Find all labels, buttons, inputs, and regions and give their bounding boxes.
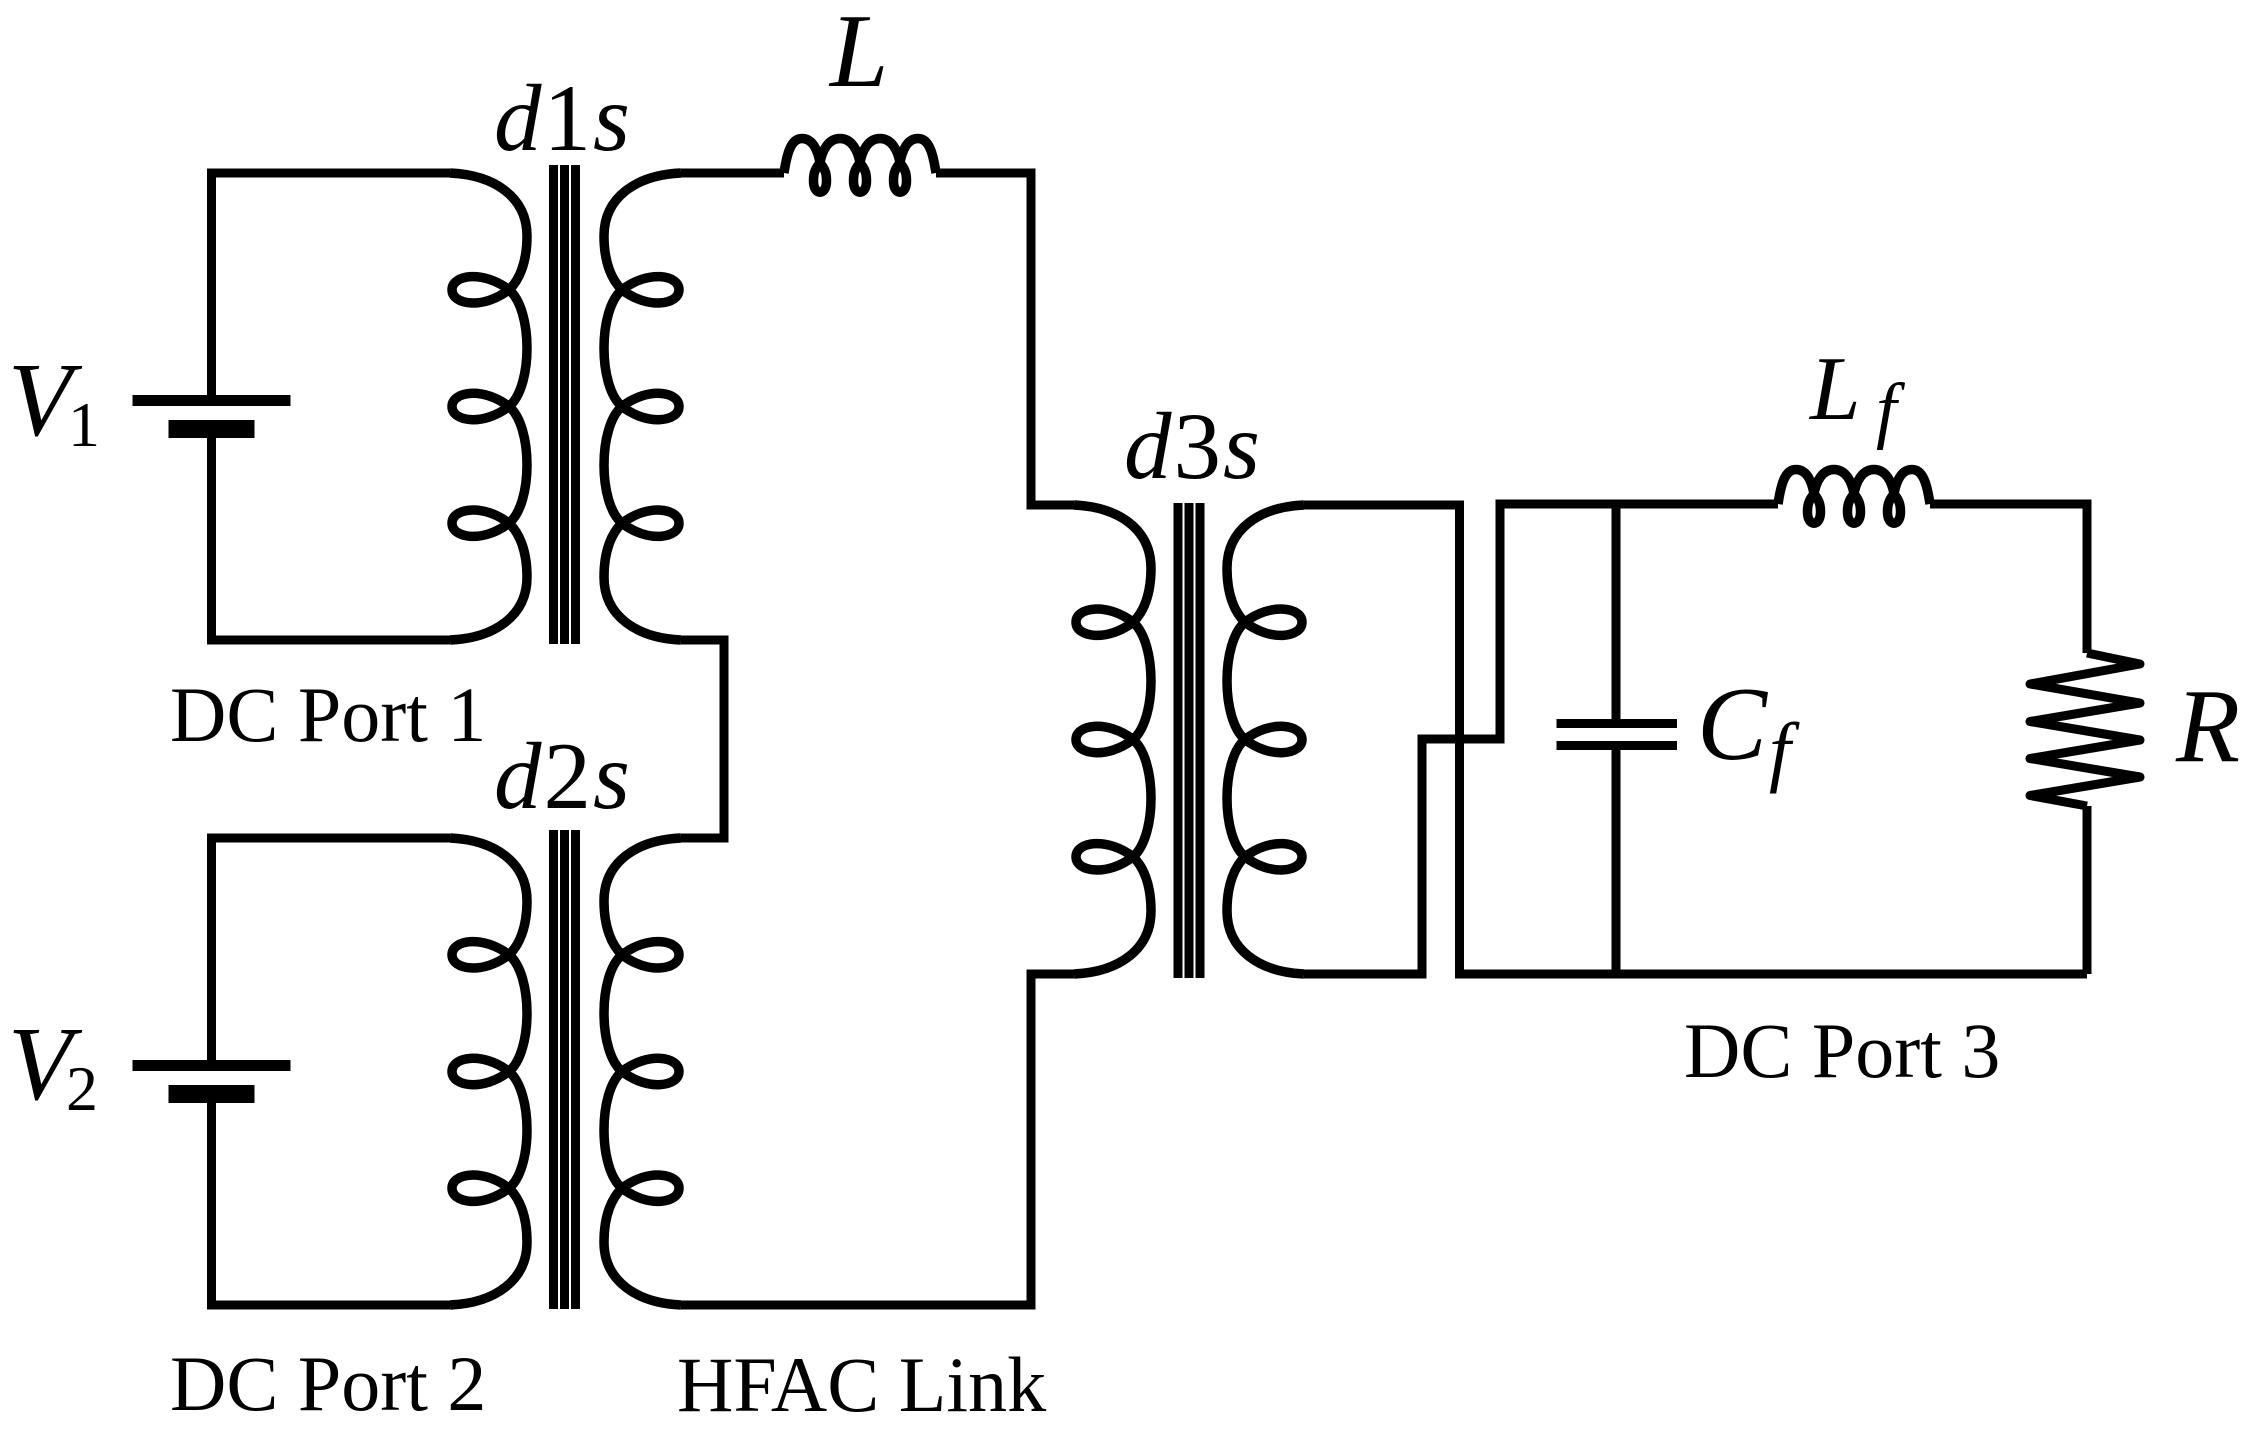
inductor L	[784, 139, 936, 193]
svg-text:R: R	[2175, 667, 2240, 784]
wire: L to d3s primary top	[936, 173, 1074, 505]
transformer d1s secondary winding	[604, 173, 681, 640]
svg-text:2: 2	[66, 1053, 98, 1124]
battery V1	[133, 395, 291, 438]
svg-text:d1s: d1s	[494, 65, 632, 171]
wire: HFAC link bottom (d2s secondary to d3s primary)	[681, 974, 1074, 1305]
transformer d2s secondary winding	[604, 838, 681, 1305]
svg-text:DC Port 1: DC Port 1	[170, 671, 486, 758]
transformer d2s core	[554, 830, 576, 1309]
wire: d3s secondary bottom, step up to DC port 3 top rail	[1304, 504, 1778, 974]
transformer d1s primary winding	[450, 173, 527, 640]
transformer d2s primary winding	[450, 838, 527, 1305]
wire: Cf bottom connection	[1612, 750, 1621, 974]
wire: d1s secondary top to inductor L	[681, 169, 784, 178]
svg-text:DC Port 2: DC Port 2	[170, 1340, 486, 1427]
svg-text:L: L	[828, 0, 888, 109]
wire: d1s secondary bottom jog to d2s secondary top	[681, 640, 724, 838]
wire: d3s secondary top to DC port 3 bottom rail	[1304, 505, 2087, 974]
battery V2	[133, 1060, 291, 1103]
wire: DC port 1 top (V1 + to d1s primary)	[212, 173, 451, 395]
svg-text:HFAC Link: HFAC Link	[677, 1341, 1046, 1428]
resistor R	[2030, 653, 2140, 806]
transformer d3s core	[1178, 503, 1200, 978]
transformer d3s primary winding	[1074, 505, 1151, 974]
wire: DC port 1 bottom (V1 - to d1s primary)	[212, 438, 451, 640]
wire: Lf to resistor R top	[1930, 504, 2087, 653]
transformer d3s secondary winding	[1227, 505, 1304, 974]
svg-text:d3s: d3s	[1124, 393, 1262, 499]
wire: DC port 2 bottom (V2 - to d2s primary)	[212, 1103, 451, 1305]
svg-text:DC Port 3: DC Port 3	[1684, 1007, 2000, 1094]
inductor Lf	[1778, 470, 1930, 524]
wire: DC port 2 top (V2 + to d2s primary)	[212, 838, 451, 1060]
svg-text:L: L	[1808, 338, 1861, 439]
transformer d1s core	[554, 165, 576, 644]
svg-text:1: 1	[68, 389, 100, 460]
wire: Cf top connection	[1612, 504, 1621, 719]
wire: R bottom to DC port 3 bottom rail	[2083, 806, 2092, 974]
capacitor Cf	[1557, 724, 1678, 746]
svg-text:C: C	[1697, 665, 1769, 782]
svg-text:d2s: d2s	[494, 723, 632, 829]
